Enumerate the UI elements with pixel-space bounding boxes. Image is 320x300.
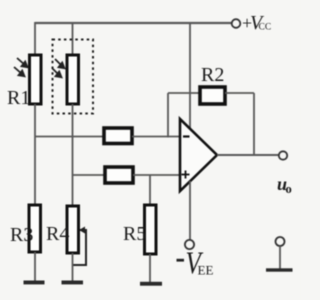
terminal -VEE bbox=[185, 240, 194, 249]
wire noninverting input line right bbox=[133, 174, 180, 176]
ground (reference terminal) bbox=[266, 268, 293, 271]
wire inverting input line right bbox=[132, 136, 180, 138]
wire R5 to ground bbox=[149, 254, 151, 282]
wire R1 top bbox=[34, 22, 36, 56]
op-amp U1 triangle bbox=[180, 119, 217, 191]
svg-text:EE: EE bbox=[198, 263, 214, 278]
resistor R5 bbox=[145, 205, 157, 254]
terminal u0 bbox=[279, 151, 287, 159]
light arrows of R1 bbox=[14, 58, 28, 76]
svg-text:R2: R2 bbox=[201, 64, 224, 86]
wire noninverting input line left bbox=[73, 174, 107, 176]
wire R1 bottom to R3 bbox=[34, 104, 36, 205]
light arrows of compensation photoresistor bbox=[52, 59, 65, 77]
wire inverting input line left bbox=[35, 136, 105, 138]
resistor R2 bbox=[200, 87, 225, 104]
terminal +Vcc bbox=[232, 19, 241, 28]
svg-text:CC: CC bbox=[259, 23, 272, 33]
R4 wiper arrowhead bbox=[79, 227, 85, 234]
label -VEE bbox=[177, 259, 185, 262]
svg-text:R5: R5 bbox=[123, 223, 146, 245]
wire top +Vcc rail bbox=[35, 22, 232, 24]
op-amp plus sign bbox=[182, 171, 190, 179]
wire R5 tap from noninverting line bbox=[149, 175, 151, 206]
ground (R5) bbox=[140, 282, 162, 286]
wire -VEE drop from op-amp bbox=[189, 181, 191, 240]
wire feedback vertical from inverting node bbox=[167, 93, 169, 138]
resistor (inverting input series) bbox=[104, 128, 132, 144]
wire R3 to ground bbox=[34, 252, 36, 281]
resistor R3 bbox=[29, 205, 41, 252]
wire compensation resistor bottom to R4 bbox=[72, 104, 74, 206]
dashed box around compensation photoresistor bbox=[53, 40, 94, 114]
resistor R4 (potentiometer body) bbox=[67, 206, 79, 253]
wire top drop to compensation photoresistor bbox=[72, 22, 74, 56]
wire reference terminal to ground bbox=[279, 246, 281, 269]
resistor (noninverting input series) bbox=[105, 167, 133, 183]
wire +Vcc drop to op-amp bbox=[189, 22, 191, 130]
R4 wiper arm bbox=[73, 230, 86, 265]
svg-text:R3: R3 bbox=[10, 224, 33, 246]
wire output bbox=[217, 154, 279, 156]
wire feedback drop to output bbox=[253, 93, 255, 155]
terminal reference (bottom right) bbox=[276, 237, 285, 246]
photoresistor in dashed box (body) bbox=[67, 55, 79, 104]
wire R4 to ground bbox=[72, 253, 74, 281]
wire feedback horizontal right of R2 bbox=[225, 92, 254, 94]
svg-text:R1: R1 bbox=[7, 87, 30, 109]
ground (R3) bbox=[24, 281, 45, 285]
resistor R1 (photoresistor body) bbox=[30, 55, 42, 104]
wire feedback horizontal left of R2 bbox=[168, 92, 201, 94]
svg-text:o: o bbox=[286, 182, 292, 196]
ground (R4) bbox=[62, 281, 84, 285]
op-amp minus sign bbox=[183, 135, 190, 137]
svg-text:R4: R4 bbox=[46, 223, 69, 245]
